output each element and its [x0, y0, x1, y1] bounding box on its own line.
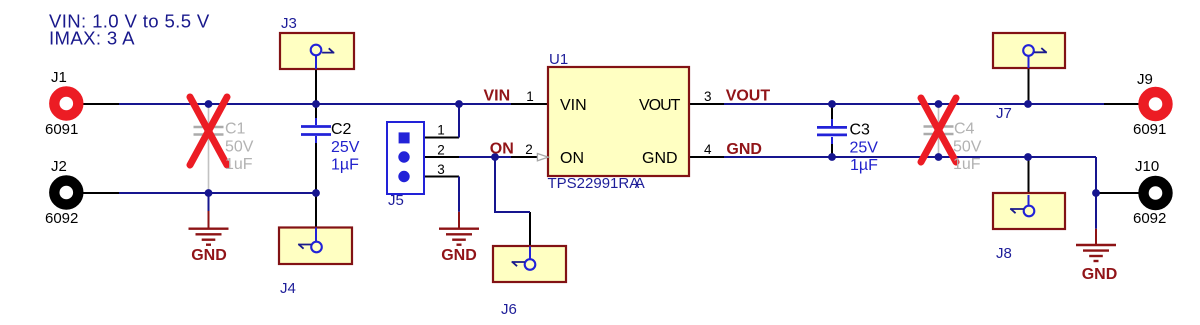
svg-text:J9: J9	[1137, 71, 1153, 88]
svg-text:GND: GND	[441, 247, 477, 264]
svg-text:J10: J10	[1135, 158, 1159, 175]
svg-text:6092: 6092	[1133, 210, 1166, 227]
svg-text:2: 2	[525, 142, 533, 157]
svg-text:1uF: 1uF	[225, 156, 253, 173]
svg-text:IMAX: 3 A: IMAX: 3 A	[49, 28, 135, 49]
svg-text:C1: C1	[225, 121, 246, 138]
svg-text:25V: 25V	[331, 139, 360, 156]
svg-text:6091: 6091	[45, 121, 78, 138]
svg-text:ON: ON	[490, 141, 514, 158]
svg-text:1µF: 1µF	[331, 157, 359, 174]
svg-text:2: 2	[437, 142, 445, 157]
svg-text:J5: J5	[388, 192, 404, 209]
svg-text:4: 4	[704, 142, 712, 157]
svg-text:GND: GND	[1082, 266, 1118, 283]
svg-text:1: 1	[526, 89, 534, 104]
svg-text:J8: J8	[996, 245, 1012, 262]
svg-text:ON: ON	[560, 150, 584, 167]
svg-text:6092: 6092	[45, 210, 78, 227]
svg-text:25V: 25V	[850, 140, 879, 157]
svg-text:VIN: VIN	[560, 97, 587, 114]
svg-text:U1: U1	[549, 51, 568, 68]
svg-text:C2: C2	[331, 121, 352, 138]
svg-text:GND: GND	[642, 150, 678, 167]
svg-text:TPS22991RAA: TPS22991RAA	[548, 175, 645, 192]
svg-text:50V: 50V	[225, 139, 254, 156]
svg-text:J7: J7	[996, 105, 1012, 122]
svg-text:J3: J3	[281, 15, 297, 32]
svg-text:VOUT: VOUT	[639, 97, 681, 114]
svg-text:C3: C3	[850, 122, 871, 139]
svg-text:1uF: 1uF	[953, 156, 981, 173]
svg-text:VIN: VIN	[484, 88, 511, 105]
svg-text:1µF: 1µF	[850, 157, 878, 174]
svg-text:C4: C4	[954, 121, 975, 138]
svg-text:VOUT: VOUT	[726, 88, 771, 105]
svg-text:J1: J1	[51, 69, 67, 86]
svg-text:3: 3	[704, 89, 712, 104]
svg-text:50V: 50V	[953, 139, 982, 156]
svg-text:6091: 6091	[1133, 121, 1166, 138]
svg-text:J6: J6	[501, 301, 517, 318]
svg-text:3: 3	[437, 162, 445, 177]
svg-text:GND: GND	[726, 141, 762, 158]
svg-text:1: 1	[437, 122, 445, 137]
svg-text:J2: J2	[51, 158, 67, 175]
svg-text:GND: GND	[191, 247, 227, 264]
svg-text:J4: J4	[280, 280, 296, 297]
